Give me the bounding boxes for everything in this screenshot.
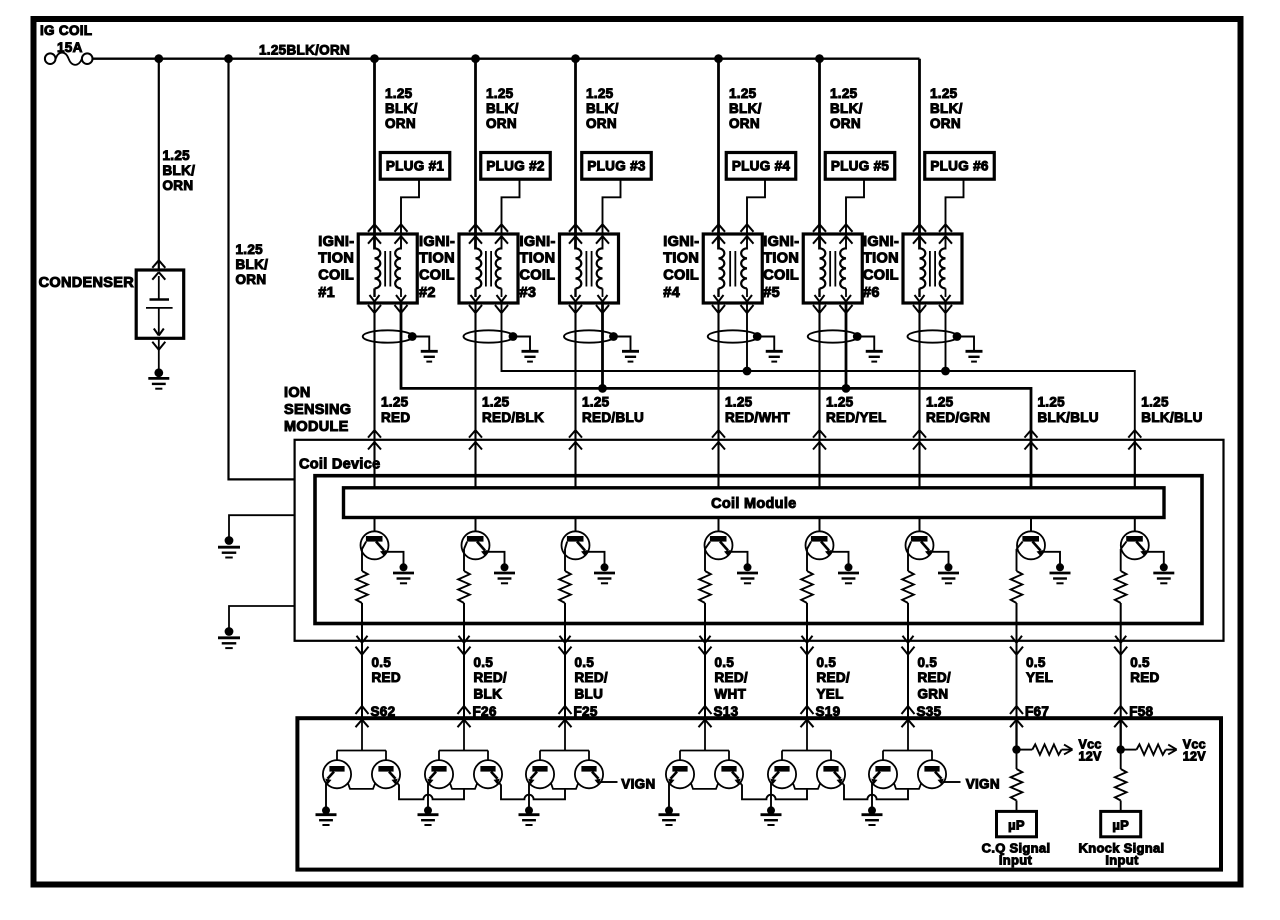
- ground Q7: [1050, 563, 1071, 583]
- coil 5 core: [830, 251, 835, 287]
- pin S35: [917, 704, 942, 719]
- connector coil 1 secondary out: [395, 305, 408, 313]
- svg-text:RED/: RED/: [474, 670, 507, 685]
- wire plug 1 to coil: [401, 179, 419, 249]
- label 1.25 RED/BLK: [482, 395, 544, 425]
- connector module output 2: [458, 636, 471, 655]
- connector coil 6 secondary out: [939, 305, 952, 313]
- svg-text:IGNI-: IGNI-: [663, 234, 699, 250]
- label ION SENSING MODULE: [284, 385, 351, 435]
- ground coil 3 shield: [622, 351, 639, 361]
- label 1.25 BLK/ORN drop 3: [586, 86, 619, 131]
- ground pair 4: [659, 806, 680, 825]
- svg-text:IG COIL: IG COIL: [40, 23, 92, 38]
- svg-text:BLK/: BLK/: [729, 101, 762, 116]
- wire module channel 3 input: [575, 440, 577, 488]
- wire Q6 emitter: [907, 549, 909, 571]
- svg-text:12V: 12V: [1183, 750, 1207, 764]
- wire coil 3 primary to module: [574, 303, 576, 488]
- wire plug 4 to coil: [747, 179, 765, 249]
- ignition coil T1 box: [358, 234, 417, 303]
- node junction drop 5: [815, 54, 824, 63]
- svg-text:0.5: 0.5: [918, 655, 938, 670]
- connector ECU input F25: [559, 706, 572, 727]
- wire Q7 collector to ground: [1042, 552, 1061, 564]
- wire module channel 1 input: [374, 440, 376, 488]
- svg-text:COIL: COIL: [520, 268, 556, 284]
- transistor Q5a (pair 5 left): [768, 760, 796, 788]
- svg-text:ORN: ORN: [236, 272, 267, 287]
- svg-text:RED/BLU: RED/BLU: [582, 410, 644, 425]
- svg-text:TION: TION: [763, 251, 799, 267]
- plug P6 box: [925, 153, 995, 180]
- node coil 5 shield: [853, 332, 862, 341]
- label IGNITION COIL #1: [318, 234, 354, 301]
- node F67: [1012, 745, 1020, 753]
- svg-text:0.5: 0.5: [1026, 655, 1046, 670]
- svg-text:RED/GRN: RED/GRN: [926, 410, 990, 425]
- coil 6 primary winding: [915, 248, 926, 301]
- connector module output 4: [699, 636, 712, 655]
- wire channel 3 module output: [564, 603, 566, 718]
- wire coil module to Q3: [575, 518, 577, 533]
- wire resistor to uP F58: [1120, 801, 1122, 812]
- label IGNITION COIL #2: [419, 234, 455, 301]
- wire coil 2 shield to ground: [513, 337, 530, 352]
- ground Q4: [737, 563, 758, 583]
- resistor R6: [902, 571, 914, 603]
- svg-text:ION: ION: [284, 385, 311, 401]
- wire Vcc arrow F67: [1062, 745, 1073, 755]
- svg-text:1.25: 1.25: [725, 395, 753, 410]
- connector module input 6: [913, 430, 926, 449]
- svg-text:ORN: ORN: [385, 116, 416, 131]
- label wire 0.5 RED: [372, 655, 401, 685]
- svg-text:PLUG #6: PLUG #6: [930, 159, 989, 174]
- coil 3 core: [586, 251, 591, 287]
- label 1.25 RED/BLU: [582, 395, 644, 425]
- wire Q6 collector to ground: [930, 552, 949, 564]
- svg-text:PLUG #3: PLUG #3: [587, 159, 646, 174]
- svg-text:#3: #3: [520, 285, 537, 301]
- transistor Q4b (pair 4 right): [715, 760, 743, 788]
- connector ECU input S19: [801, 706, 814, 727]
- coil 3 shield ellipse: [564, 330, 614, 342]
- ground Q2: [494, 563, 515, 583]
- resistor R3: [559, 571, 571, 603]
- transistor Q1: [361, 531, 389, 559]
- wire BLK/ORN drop 3: [574, 59, 577, 250]
- label wire 0.5 YEL: [1026, 655, 1053, 685]
- svg-text:0.5: 0.5: [474, 655, 494, 670]
- svg-text:COIL: COIL: [763, 268, 799, 284]
- wire input tee pair 2: [439, 718, 488, 761]
- label Knock Signal Input: [1079, 840, 1165, 867]
- wire coil module to Q8: [1134, 518, 1136, 533]
- svg-text:RED: RED: [1130, 670, 1159, 685]
- svg-text:µP: µP: [1112, 818, 1129, 833]
- wire channel 2 module output: [463, 603, 465, 718]
- svg-text:#2: #2: [419, 285, 436, 301]
- label 1.25 BLK/BLU: [1141, 395, 1202, 425]
- label Vcc 12V F67: [1079, 738, 1103, 764]
- node bus even coil 4: [743, 367, 752, 376]
- connector module input 8: [1128, 430, 1141, 449]
- wire Q7 emitter: [1016, 549, 1018, 571]
- svg-text:BLK/: BLK/: [930, 101, 963, 116]
- svg-text:1.25: 1.25: [826, 395, 854, 410]
- svg-text:BLK/: BLK/: [236, 257, 269, 272]
- coil 1 shield ellipse: [363, 330, 413, 342]
- connector ECU input F58: [1114, 706, 1127, 727]
- wire coil 2 primary to module: [474, 303, 476, 488]
- label 1.25 RED/YEL: [826, 395, 887, 425]
- svg-text:BLK/: BLK/: [385, 101, 418, 116]
- svg-text:µP: µP: [1008, 818, 1025, 833]
- wire coil 3 shield to ground: [614, 337, 631, 352]
- connector coil 1 secondary in: [395, 224, 408, 243]
- wire BLK/ORN drop 6: [918, 59, 921, 250]
- connector module input 7: [1025, 430, 1038, 449]
- svg-text:BLU: BLU: [575, 687, 604, 702]
- svg-text:1.25: 1.25: [163, 148, 191, 163]
- connector module output 5: [801, 636, 814, 655]
- wire Q5b emitter to pair 6 (hops ground wire): [842, 782, 908, 799]
- wire Q4 emitter: [704, 549, 706, 571]
- wire coil 5 shield to ground: [857, 337, 874, 352]
- label Vcc 12V F58: [1183, 738, 1207, 764]
- node junction condenser drop: [154, 54, 163, 63]
- resistor series F67: [1011, 769, 1023, 801]
- transistor Q8: [1121, 531, 1149, 559]
- label C.Q Signal Input: [982, 840, 1051, 867]
- transistor Q3: [562, 531, 590, 559]
- svg-text:COIL: COIL: [663, 268, 699, 284]
- label 1.25 RED/GRN: [926, 395, 990, 425]
- label VIGN right group: [966, 776, 1000, 791]
- svg-text:1.25: 1.25: [381, 395, 409, 410]
- svg-text:TION: TION: [419, 251, 455, 267]
- wire Q5a to ground: [770, 782, 772, 807]
- connector coil 5 secondary in: [840, 224, 853, 243]
- wire BLK/ORN drop 4: [717, 59, 720, 250]
- wire Q6a to ground: [871, 782, 873, 807]
- plug P3 box: [582, 153, 652, 180]
- wire module ground stub 2: [229, 606, 295, 629]
- label 1.25 RED: [381, 395, 410, 425]
- node bus odd coil 5: [842, 384, 851, 393]
- svg-text:#6: #6: [863, 285, 880, 301]
- resistor R7: [1011, 571, 1023, 603]
- label wire 0.5 RED//YEL: [817, 655, 850, 702]
- wire coil module to Q7: [1030, 518, 1032, 533]
- wire channel 4 module output: [704, 603, 706, 718]
- label wire 0.5 RED//GRN: [918, 655, 951, 702]
- connector coil 5 secondary out: [840, 305, 853, 313]
- wire channel 6 module output: [907, 603, 909, 718]
- wire to Vcc pullup F58: [1121, 749, 1137, 751]
- microprocessor uP box F67: [997, 811, 1037, 836]
- svg-text:1.25: 1.25: [385, 86, 413, 101]
- resistor R5: [801, 571, 813, 603]
- wire module channel 6 input: [919, 440, 921, 488]
- wire coil module to Q5: [819, 518, 821, 533]
- wire Q2 emitter: [463, 549, 465, 571]
- pin F26: [473, 704, 497, 719]
- label 1.25 BLK/ORN drop 1: [385, 86, 418, 131]
- coil 3 primary winding: [571, 248, 582, 301]
- node junction drop 2: [471, 54, 480, 63]
- ground coil 4 shield: [766, 351, 783, 361]
- ground pair 3: [519, 806, 540, 825]
- svg-text:RED/: RED/: [575, 670, 608, 685]
- ground Q8: [1153, 563, 1174, 583]
- wire Vcc arrow F58: [1166, 745, 1177, 755]
- wire channel 5 module output: [806, 603, 808, 718]
- coil 6 secondary winding: [940, 248, 951, 301]
- svg-text:#1: #1: [318, 285, 335, 301]
- connector module output 6: [902, 636, 915, 655]
- connector coil 3 primary out: [569, 305, 582, 313]
- wire coil 4 secondary to bus: [746, 303, 748, 371]
- svg-text:Coil Module: Coil Module: [711, 496, 796, 512]
- connector coil 2 primary out: [469, 305, 482, 313]
- svg-text:BLK: BLK: [474, 687, 503, 702]
- transistor Q1a (pair 1 left): [323, 760, 351, 788]
- svg-text:IGNI-: IGNI-: [763, 234, 799, 250]
- wire Q2a to ground: [427, 782, 429, 807]
- coil 4 primary winding: [714, 248, 725, 301]
- resistor R1: [356, 571, 368, 603]
- wire Q2 collector to ground: [486, 552, 505, 564]
- coil 5 secondary winding: [840, 248, 851, 301]
- capacitor C1: [146, 276, 173, 336]
- label Coil Device: [299, 457, 380, 473]
- wire Q6b to VIGN: [943, 781, 961, 783]
- connector module input 1: [368, 430, 381, 449]
- coil 1 primary winding: [370, 248, 381, 301]
- connector into condenser: [152, 260, 165, 279]
- plug P4 box: [726, 153, 796, 180]
- svg-text:IGNI-: IGNI-: [520, 234, 556, 250]
- svg-text:15A: 15A: [57, 40, 83, 55]
- ground condenser: [148, 368, 169, 388]
- svg-text:IGNI-: IGNI-: [863, 234, 899, 250]
- resistor pullup F67: [1032, 744, 1061, 754]
- ground Q1: [393, 563, 414, 583]
- svg-text:RED/BLK: RED/BLK: [482, 410, 544, 425]
- label 1.25 BLK/ORN left feed: [236, 242, 269, 287]
- svg-text:TION: TION: [863, 251, 899, 267]
- pin S19: [816, 704, 841, 719]
- transistor Q1b (pair 1 right): [372, 760, 400, 788]
- ground Q6: [938, 563, 959, 583]
- wire module channel 8 input: [1134, 440, 1136, 488]
- wire Q3b to VIGN: [600, 781, 618, 783]
- svg-text:1.25: 1.25: [236, 242, 264, 257]
- connector coil 2 primary in: [469, 224, 482, 243]
- label 1.25 BLK/ORN drop 4: [729, 86, 762, 131]
- wire plug 5 to coil: [846, 179, 864, 249]
- connector ECU input S62: [356, 706, 369, 727]
- wire Q1a to ground: [325, 782, 327, 807]
- wire bus even coils secondaries (2,4,6): [502, 303, 1135, 488]
- ignition coil T5 box: [803, 234, 862, 303]
- node junction left BLK/ORN drop: [224, 54, 233, 63]
- wire condenser drop: [158, 59, 160, 270]
- connector coil 2 secondary in: [495, 224, 508, 243]
- connector coil 5 primary in: [813, 224, 826, 243]
- wire condenser to ground: [158, 338, 160, 370]
- wire module channel 2 input: [475, 440, 477, 488]
- plug P1 box: [380, 153, 450, 180]
- coil 4 core: [730, 251, 735, 287]
- node coil 3 shield: [609, 332, 618, 341]
- ignition coil T3 box: [560, 234, 619, 303]
- wire resistor to uP F67: [1016, 801, 1018, 812]
- label IGNITION COIL #3: [520, 234, 556, 301]
- label IGNITION COIL #6: [863, 234, 899, 301]
- condenser C1 box: [136, 270, 184, 338]
- svg-text:Coil Device: Coil Device: [299, 457, 380, 473]
- wire coil 6 primary to module: [918, 303, 920, 488]
- transistor Q5: [806, 531, 834, 559]
- pin F25: [574, 704, 598, 719]
- svg-text:1.25: 1.25: [930, 86, 958, 101]
- wire bus odd coils secondaries (1,3,5): [401, 303, 1031, 488]
- ECU box: [297, 718, 1221, 869]
- coil 5 primary winding: [815, 248, 826, 301]
- transistor Q6a (pair 6 left): [869, 760, 897, 788]
- svg-text:1.25: 1.25: [582, 395, 610, 410]
- wire coil 5 secondary to bus: [845, 303, 848, 388]
- svg-text:SENSING: SENSING: [284, 402, 351, 418]
- svg-text:RED: RED: [372, 670, 401, 685]
- ground pair 2: [418, 806, 439, 825]
- wire channel 8 module output: [1120, 603, 1122, 718]
- svg-text:PLUG #1: PLUG #1: [386, 159, 445, 174]
- connector coil 3 primary in: [569, 224, 582, 243]
- wire input tee pair 4: [680, 718, 729, 761]
- transistor Q2b (pair 2 right): [474, 760, 502, 788]
- ignition coil T2 box: [459, 234, 518, 303]
- wire coil 6 secondary to bus: [945, 303, 947, 371]
- plug P2 box: [481, 153, 551, 180]
- node junction drop 1: [370, 54, 379, 63]
- wire top bus 1.25BLK/ORN: [93, 58, 920, 60]
- svg-text:RED/: RED/: [715, 670, 748, 685]
- wire plug 6 to coil: [946, 179, 964, 249]
- connector coil 5 primary out: [813, 305, 826, 313]
- connector coil 4 primary in: [712, 224, 725, 243]
- label 1.25BLK/ORN: [259, 43, 350, 58]
- svg-text:PLUG #4: PLUG #4: [732, 159, 791, 174]
- wire BLK/ORN drop 5: [818, 59, 821, 250]
- wire coil 4 primary to module: [717, 303, 719, 488]
- svg-text:BLK/: BLK/: [486, 101, 519, 116]
- svg-text:ORN: ORN: [163, 178, 194, 193]
- wire module ground stub 1: [229, 515, 295, 538]
- transistor Q6: [906, 531, 934, 559]
- ION sensing module box: [295, 440, 1224, 641]
- transistor Q2: [462, 531, 490, 559]
- connector ECU input S35: [902, 706, 915, 727]
- label IGNITION COIL #5: [763, 234, 799, 301]
- label wire 0.5 RED//BLU: [575, 655, 608, 702]
- wire coil module to Q4: [718, 518, 720, 533]
- svg-text:BLK/BLU: BLK/BLU: [1038, 410, 1099, 425]
- svg-text:0.5: 0.5: [1130, 655, 1150, 670]
- coil 6 shield ellipse: [908, 330, 958, 342]
- wire F58 to resistor: [1120, 750, 1122, 769]
- connector coil 3 secondary out: [596, 305, 609, 313]
- coil device inner box: [315, 476, 1202, 624]
- svg-text:RED/: RED/: [918, 670, 951, 685]
- svg-text:VIGN: VIGN: [966, 776, 1000, 791]
- transistor Q3a (pair 3 left): [526, 760, 554, 788]
- svg-text:0.5: 0.5: [372, 655, 392, 670]
- ground coil 1 shield: [421, 351, 438, 361]
- coil 4 secondary winding: [741, 248, 752, 301]
- connector coil 1 primary in: [368, 224, 381, 243]
- connector coil 1 primary out: [368, 305, 381, 313]
- wire input tee pair 1: [337, 718, 386, 761]
- ground module stub 1: [218, 536, 240, 557]
- wire Q4b emitter to pair 5 (hops ground wire): [740, 782, 807, 799]
- wire module channel 5 input: [819, 440, 821, 488]
- svg-text:0.5: 0.5: [817, 655, 837, 670]
- coil 1 core: [385, 251, 390, 287]
- pin S62: [371, 704, 396, 719]
- svg-text:RED: RED: [381, 410, 410, 425]
- transistor Q4a (pair 4 left): [666, 760, 694, 788]
- connector module output 1: [356, 636, 369, 655]
- transistor Q4: [705, 531, 733, 559]
- resistor pullup F58: [1137, 744, 1166, 754]
- wire coil 1 primary to module: [373, 303, 375, 488]
- svg-text:COIL: COIL: [419, 268, 455, 284]
- node junction drop 4: [714, 54, 723, 63]
- label wire 0.5 RED: [1130, 655, 1159, 685]
- label 1.25 RED/WHT: [725, 395, 791, 425]
- svg-text:CONDENSER: CONDENSER: [39, 275, 135, 291]
- wire Q1 collector to ground: [385, 552, 404, 564]
- wire Q8 collector to ground: [1145, 552, 1164, 564]
- ground pair 1: [316, 806, 337, 825]
- wire left BLK/ORN feed: [229, 59, 295, 480]
- label wire 0.5 RED//BLK: [474, 655, 507, 702]
- connector coil 4 secondary in: [741, 224, 754, 243]
- wire coil 4 shield to ground: [757, 337, 774, 352]
- svg-text:#4: #4: [663, 285, 680, 301]
- wire coil module to Q2: [475, 518, 477, 533]
- coil 3 secondary winding: [597, 248, 608, 301]
- svg-text:BLK/BLU: BLK/BLU: [1141, 410, 1202, 425]
- fuse IG COIL 15A: [40, 23, 92, 65]
- ground coil 6 shield: [966, 351, 983, 361]
- connector ECU input S13: [699, 706, 712, 727]
- svg-text:IGNI-: IGNI-: [318, 234, 354, 250]
- svg-text:0.5: 0.5: [715, 655, 735, 670]
- wire coil module to Q6: [919, 518, 921, 533]
- label 1.25 BLK/BLU: [1038, 395, 1099, 425]
- connector module output 8: [1114, 636, 1127, 655]
- svg-text:IGNI-: IGNI-: [419, 234, 455, 250]
- svg-text:1.25: 1.25: [482, 395, 510, 410]
- wire Q3a to ground: [528, 782, 530, 807]
- ground Q3: [594, 563, 615, 583]
- ground Q5: [838, 563, 859, 583]
